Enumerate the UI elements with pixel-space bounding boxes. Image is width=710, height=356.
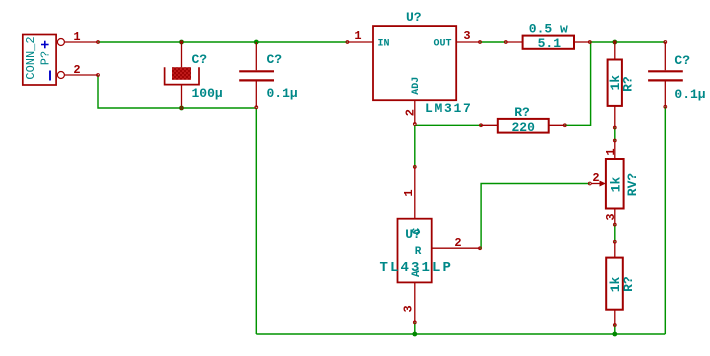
resistor R 220 [480,105,567,135]
connector P? CONN_2 [23,30,100,85]
svg-text:CONN_2: CONN_2 [24,36,38,79]
resistor R 1k lower [606,240,636,326]
wire: RV pin3 to lower 1k [614,225,616,242]
connector body [23,35,56,86]
transistor U2 TL431LP [380,166,482,324]
svg-text:U?: U? [406,10,422,25]
pin 1 of LM317 [347,41,373,43]
capacitor C1 100u electrolytic [165,41,223,109]
electrolytic cup outline [165,67,199,84]
svg-text:C: C [412,227,424,234]
svg-text:100µ: 100µ [192,86,223,101]
svg-text:TL431LP: TL431LP [380,260,454,276]
pin 3 of LM317 [456,41,480,43]
svg-text:1: 1 [354,29,361,43]
wire: TL431 pin3 to bottom rail [414,322,416,334]
svg-text:R?: R? [514,105,530,120]
svg-text:1: 1 [604,148,618,155]
resistor R 1k upper [608,41,636,129]
svg-text:1k: 1k [609,177,624,193]
svg-text:2: 2 [592,171,599,185]
pin 1 of P? [57,39,64,46]
svg-text:220: 220 [511,120,535,135]
svg-text:R?: R? [621,276,636,292]
svg-text:R?: R? [621,76,636,92]
svg-text:1: 1 [73,30,80,44]
junction at lower 1k on bottom rail [612,332,617,337]
svg-text:3: 3 [604,213,618,220]
junction at input 0.1u cap top [254,40,259,45]
wire: feedback drop from output node down to R220 right [565,42,591,125]
junction at 100u cap top [179,40,184,45]
pin 3 of TL431 [414,282,416,322]
svg-text:R: R [415,246,422,258]
wire: lower 1k bottom to ground rail [614,325,616,334]
wire: TL431 pin2 up and right to RV wiper [480,184,590,249]
resistor R 5.1 0.5w [504,22,591,52]
wiper pin 2 of RV? [588,182,591,185]
pin 3 of RV? [614,209,616,225]
svg-text:ADJ: ADJ [411,77,422,95]
pin 2 of LM317 [414,100,416,124]
svg-text:1: 1 [402,189,416,196]
potentiometer RV? 1k [588,139,640,226]
pin 1 of TL431 [414,167,416,219]
junction at 100u cap bottom [179,106,184,111]
svg-text:3: 3 [402,305,416,312]
svg-text:C?: C? [267,52,283,67]
svg-text:0.5 w: 0.5 w [529,22,568,37]
minus mark [49,71,51,81]
svg-text:OUT: OUT [434,39,452,50]
svg-text:2: 2 [404,109,418,116]
junction at TL431 pin3 on bottom rail [412,332,417,337]
capacitor C2 0.1u input [239,42,298,109]
wire: LM317 OUT to R 5.1 [480,41,506,43]
pin 2 of P? [57,72,64,79]
junction at output node [612,40,617,45]
pin 2 of TL431 [432,247,480,249]
capacitor C3 0.1u output [648,41,706,109]
svg-text:2: 2 [454,236,461,250]
svg-text:RV?: RV? [625,173,640,197]
wire: left drop input cap bottom to bottom rail [255,108,257,334]
svg-text:5.1: 5.1 [538,36,562,51]
op-amp U1 LM317 [346,10,481,125]
electrolytic filled plate [172,67,191,80]
wire: R 5.1 right to output cap [590,41,666,43]
svg-text:0.1µ: 0.1µ [267,86,298,101]
wire: bottom rail [256,333,665,335]
svg-text:C?: C? [674,53,690,68]
wire: 1k bottom to RV top [614,128,616,141]
wire: top rail from connector pin1 to LM317 IN [98,41,347,43]
wire: connector pin2 down [98,75,256,108]
wire: right drop output cap bottom to bottom rail [664,107,666,334]
svg-text:0.1µ: 0.1µ [674,87,705,102]
svg-text:IN: IN [378,39,390,50]
svg-text:P?: P? [39,51,53,65]
plus mark [41,44,49,46]
wire: ADJ node down to TL431 pin1 [414,125,416,167]
svg-text:3: 3 [463,29,470,43]
svg-text:2: 2 [73,63,80,77]
svg-text:LM317: LM317 [425,101,473,116]
wire: ADJ node right to R220 left [415,124,481,126]
svg-text:C?: C? [192,52,208,67]
